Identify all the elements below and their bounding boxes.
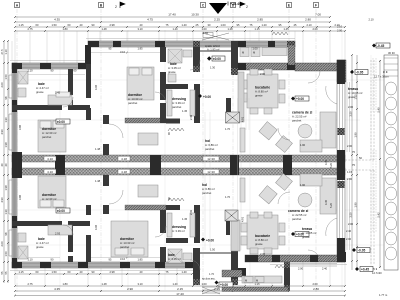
svg-text:2.00: 2.00	[347, 177, 353, 181]
svg-text:2.00: 2.00	[312, 27, 318, 31]
svg-text:2.75: 2.75	[27, 27, 33, 31]
svg-text:A: 1.93 m²: A: 1.93 m²	[207, 48, 220, 52]
svg-text:+0.00: +0.00	[220, 283, 228, 287]
svg-text:1.10: 1.10	[27, 69, 33, 73]
svg-text:-0.45: -0.45	[377, 44, 384, 48]
svg-text:1.30: 1.30	[4, 209, 8, 215]
svg-text:1.48: 1.48	[95, 179, 101, 183]
svg-text:27.5: 27.5	[0, 49, 4, 55]
svg-text:2.00: 2.00	[347, 144, 353, 148]
svg-text:1.70: 1.70	[225, 195, 231, 199]
svg-text:5.40: 5.40	[376, 107, 380, 113]
svg-text:1.98: 1.98	[4, 142, 8, 148]
svg-text:2.93: 2.93	[55, 232, 61, 236]
svg-text:4.90: 4.90	[0, 197, 4, 203]
svg-text:12.7x30: 12.7x30	[372, 271, 382, 275]
svg-text:gresie: gresie	[302, 235, 310, 239]
svg-text:1.98: 1.98	[4, 185, 8, 191]
svg-text:parchet: parchet	[292, 217, 302, 221]
svg-text:3.10: 3.10	[137, 282, 143, 286]
svg-text:2.10: 2.10	[337, 25, 343, 29]
svg-text:12.30: 12.30	[207, 157, 215, 161]
svg-text:1.20: 1.20	[261, 23, 267, 27]
svg-text:4.18: 4.18	[121, 170, 127, 174]
svg-text:1.40: 1.40	[172, 27, 178, 31]
svg-text:4.90: 4.90	[0, 129, 4, 135]
svg-text:1.15: 1.15	[254, 27, 260, 31]
svg-text:2.10: 2.10	[368, 18, 374, 22]
svg-text:2.43: 2.43	[189, 114, 193, 120]
svg-text:1.85: 1.85	[137, 47, 143, 51]
svg-text:2.80: 2.80	[313, 287, 319, 291]
svg-text:2.80: 2.80	[305, 18, 311, 22]
svg-text:4.18: 4.18	[121, 157, 127, 161]
svg-text:±0.00: ±0.00	[213, 57, 221, 61]
svg-text:gresie: gresie	[348, 95, 356, 99]
svg-text:A: 12.30 m²: A: 12.30 m²	[42, 197, 57, 201]
svg-text:2.75: 2.75	[27, 282, 33, 286]
svg-text:10.30: 10.30	[191, 13, 199, 17]
svg-text:4.10: 4.10	[47, 170, 53, 174]
svg-text:1.50: 1.50	[210, 248, 216, 252]
svg-text:1.45: 1.45	[182, 217, 188, 221]
svg-text:1.00: 1.00	[220, 23, 226, 27]
svg-text:1.50: 1.50	[4, 74, 8, 80]
svg-text:1.50: 1.50	[51, 23, 57, 27]
svg-text:2.00: 2.00	[0, 82, 4, 88]
svg-text:4.35: 4.35	[54, 18, 60, 22]
svg-text:4.35: 4.35	[54, 287, 60, 291]
svg-text:1.80: 1.80	[62, 27, 68, 31]
svg-text:F: F	[315, 4, 317, 8]
svg-text:3.10: 3.10	[120, 257, 126, 261]
svg-text:3.50: 3.50	[348, 111, 352, 117]
svg-text:±0.00: ±0.00	[57, 120, 65, 124]
svg-text:E: E	[288, 4, 290, 8]
svg-text:gresie: gresie	[36, 90, 44, 94]
svg-text:17.40: 17.40	[176, 292, 184, 296]
svg-text:parchet: parchet	[42, 135, 52, 139]
svg-text:4.45: 4.45	[324, 159, 328, 165]
svg-text:5.42: 5.42	[376, 212, 380, 218]
svg-text:2.45: 2.45	[55, 91, 61, 95]
svg-text:2: 2	[115, 5, 117, 9]
svg-text:17.40: 17.40	[168, 13, 176, 17]
svg-text:2.25: 2.25	[214, 18, 220, 22]
svg-text:1.48: 1.48	[101, 27, 107, 31]
svg-text:1.30: 1.30	[210, 66, 216, 70]
svg-text:-0.05: -0.05	[356, 71, 363, 75]
svg-text:1.70: 1.70	[209, 272, 215, 276]
svg-text:1.15: 1.15	[18, 23, 24, 27]
svg-text:+0.00: +0.00	[206, 239, 214, 243]
svg-text:M: M	[256, 279, 258, 283]
svg-text:12.30: 12.30	[207, 170, 215, 174]
svg-text:1.70: 1.70	[225, 127, 231, 131]
svg-text:4.45: 4.45	[324, 199, 328, 205]
svg-text:parchet: parchet	[292, 119, 302, 123]
svg-text:2.30: 2.30	[260, 72, 266, 76]
svg-text:1.30: 1.30	[4, 117, 8, 123]
svg-text:1.00: 1.00	[252, 47, 258, 51]
svg-text:1.85: 1.85	[137, 258, 143, 262]
svg-text:A: 3.05 m²: A: 3.05 m²	[168, 257, 181, 261]
svg-text:1.90: 1.90	[353, 132, 357, 138]
svg-text:2.00: 2.00	[346, 237, 352, 241]
svg-text:3.10: 3.10	[137, 27, 143, 31]
svg-text:gresie: gresie	[255, 94, 263, 98]
svg-text:4.06: 4.06	[94, 224, 98, 230]
svg-text:1.45: 1.45	[182, 109, 188, 113]
svg-text:2.00: 2.00	[298, 267, 304, 271]
svg-text:gresie: gresie	[255, 242, 263, 246]
svg-text:1.80: 1.80	[62, 282, 68, 286]
svg-text:2.00: 2.00	[312, 282, 318, 286]
svg-text:+18.40: +18.40	[230, 2, 241, 6]
svg-text:2.00: 2.00	[348, 105, 354, 109]
svg-text:M: M	[253, 51, 255, 55]
svg-text:4.91: 4.91	[241, 116, 245, 122]
svg-text:sp.dus asc.: sp.dus asc.	[202, 277, 216, 281]
svg-text:2.40: 2.40	[346, 229, 352, 233]
svg-text:1.45: 1.45	[283, 27, 289, 31]
svg-text:1.15: 1.15	[347, 170, 353, 174]
svg-text:parchet: parchet	[202, 191, 212, 195]
svg-text:2.40: 2.40	[322, 267, 328, 271]
svg-text:5.20: 5.20	[329, 162, 333, 168]
svg-text:1.90: 1.90	[300, 143, 306, 147]
svg-text:1.10: 1.10	[27, 258, 33, 262]
svg-text:1.10: 1.10	[4, 49, 8, 55]
svg-text:4.75: 4.75	[147, 18, 153, 22]
svg-text:spatiu tehnic: spatiu tehnic	[205, 44, 221, 48]
svg-text:30 30: 30 30	[388, 51, 395, 55]
svg-text:tr 1:: tr 1:	[383, 70, 388, 74]
svg-text:M: M	[242, 51, 244, 55]
svg-text:parchet: parchet	[205, 147, 215, 151]
svg-text:3.10: 3.10	[120, 50, 126, 54]
svg-text:5.20: 5.20	[329, 202, 333, 208]
svg-text:1.77 m: 1.77 m	[379, 293, 388, 297]
svg-text:7.00: 7.00	[315, 13, 321, 17]
svg-text:1.90: 1.90	[300, 183, 306, 187]
svg-text:±0.00: ±0.00	[57, 209, 65, 213]
svg-text:1.00: 1.00	[201, 282, 207, 286]
svg-text:2: 2	[246, 5, 248, 9]
svg-text:2.15: 2.15	[177, 287, 183, 291]
svg-text:1.48: 1.48	[101, 282, 107, 286]
svg-text:2.00: 2.00	[348, 222, 354, 226]
svg-text:+0.45: +0.45	[361, 268, 369, 272]
svg-text:4.10: 4.10	[47, 157, 53, 161]
svg-text:4.91: 4.91	[241, 216, 245, 222]
svg-text:2.85: 2.85	[257, 18, 263, 22]
svg-text:1.28: 1.28	[227, 27, 233, 31]
svg-text:2.30: 2.30	[260, 252, 266, 256]
svg-text:2.10: 2.10	[306, 23, 312, 27]
svg-text:2.43: 2.43	[189, 209, 193, 215]
svg-text:1.90: 1.90	[353, 202, 357, 208]
svg-text:3.50: 3.50	[348, 212, 352, 218]
svg-text:2.00: 2.00	[0, 241, 4, 247]
svg-text:2.98: 2.98	[109, 23, 115, 27]
svg-text:12.7 x 30cm: 12.7 x 30cm	[374, 75, 389, 79]
svg-text:3.86: 3.86	[18, 194, 22, 200]
svg-text:2.90: 2.90	[127, 287, 133, 291]
svg-text:parchet: parchet	[128, 101, 138, 105]
svg-text:1.40: 1.40	[172, 282, 178, 286]
svg-text:1.48: 1.48	[95, 147, 101, 151]
svg-text:+0.00: +0.00	[203, 95, 211, 99]
svg-text:A: 3.39 m²: A: 3.39 m²	[172, 229, 185, 233]
svg-text:parchet: parchet	[120, 245, 130, 249]
svg-text:+0.00: +0.00	[296, 97, 304, 101]
svg-text:3.86: 3.86	[18, 124, 22, 130]
svg-text:1.40: 1.40	[181, 23, 187, 27]
svg-text:-0.05: -0.05	[358, 249, 365, 253]
svg-text:4.06: 4.06	[94, 84, 98, 90]
svg-text:gresie: gresie	[168, 70, 176, 74]
svg-text:1.50: 1.50	[4, 251, 8, 257]
svg-text:M: M	[245, 279, 247, 283]
svg-text:1.00: 1.00	[201, 27, 207, 31]
svg-text:1.60: 1.60	[203, 31, 209, 35]
svg-text:2.00: 2.00	[337, 29, 343, 33]
svg-text:gresie: gresie	[36, 245, 44, 249]
svg-text:parchet: parchet	[172, 105, 182, 109]
